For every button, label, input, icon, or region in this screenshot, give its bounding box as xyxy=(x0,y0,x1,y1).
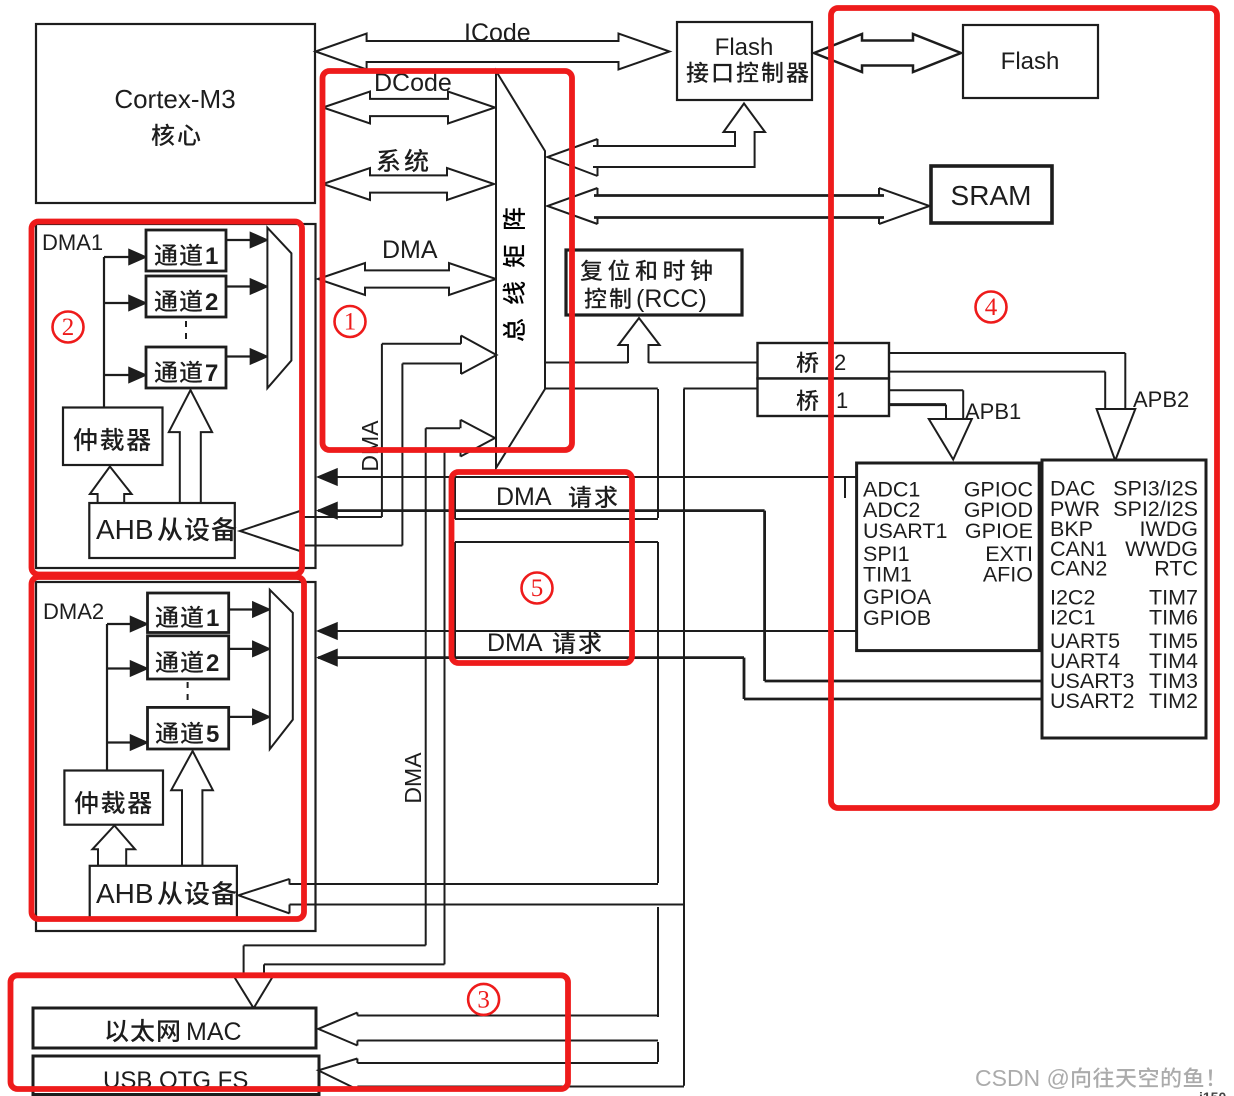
wire DMA2 trunk xyxy=(106,624,108,771)
arrowhead APB1 down xyxy=(929,419,972,460)
svg-text:I2C1: I2C1 xyxy=(1050,606,1095,630)
svg-text:AHB: AHB xyxy=(96,514,154,545)
arrow DMA2 port to matrix xyxy=(461,420,496,457)
bus arrow DMA (core) xyxy=(318,263,496,295)
wire vertical channel right (x=684) xyxy=(683,389,685,1086)
dashed link 通道2..通道5 xyxy=(187,682,189,706)
arrowhead into 通道1 xyxy=(129,250,146,265)
arrowhead into DMA2 通道1 xyxy=(131,617,148,632)
svg-text:APB1: APB1 xyxy=(965,399,1021,424)
wire band Q verticals xyxy=(425,428,427,945)
red circled 5 xyxy=(522,573,553,604)
DMA request band 1 box xyxy=(454,477,456,519)
wire 通道 outputs to mux xyxy=(226,239,252,241)
box 仲裁器 DMA2 xyxy=(64,771,163,825)
red circled 1 xyxy=(335,306,366,337)
arrow to RCC xyxy=(619,318,660,363)
svg-text:TIM1: TIM1 xyxy=(863,562,912,586)
svg-text:2: 2 xyxy=(205,289,218,316)
red circled 3 xyxy=(468,984,499,1015)
wire AHB1 band horizontals xyxy=(301,516,382,518)
box APB2 peripherals xyxy=(1042,460,1206,738)
svg-text:3: 3 xyxy=(477,986,490,1013)
wire ethernet band xyxy=(357,1015,658,1017)
label 通道7 xyxy=(155,361,202,383)
wire request W4 thick (to USART2) xyxy=(318,656,744,659)
dashed link 通道2..通道7 xyxy=(185,321,187,345)
wire USB band xyxy=(357,1062,658,1064)
red highlight box 3 xyxy=(11,975,569,1089)
arrowhead into 通道2 xyxy=(129,296,146,311)
wire bridge2 to APB2 arrow xyxy=(890,352,1125,354)
bus matrix 总线矩阵 xyxy=(496,71,545,468)
mux trapezoid DMA1 xyxy=(267,228,291,389)
wire bridge1 to APB1 arrow xyxy=(890,389,963,391)
red highlight box 2 upper (DMA1) xyxy=(32,222,303,575)
label 从设备1 xyxy=(158,517,237,541)
box DMA1 outer xyxy=(36,224,316,568)
svg-text:ICode: ICode xyxy=(464,19,531,47)
label 控制(RCC) xyxy=(585,288,631,309)
label 请求1 xyxy=(569,486,617,508)
arrow matrix to SRAM xyxy=(594,194,884,197)
label 通道2 xyxy=(155,290,202,312)
wire matrix to bridges (top) xyxy=(546,362,628,364)
box Cortex-M3 core xyxy=(36,24,315,203)
wire request W2 thick (to USART3) xyxy=(318,509,765,512)
svg-text:1: 1 xyxy=(206,605,219,632)
svg-text:TIM6: TIM6 xyxy=(1149,606,1198,630)
svg-text:DMA1: DMA1 xyxy=(42,230,103,255)
box bridge 2 桥2 xyxy=(758,343,890,379)
mux trapezoid DMA2 xyxy=(270,590,293,749)
label 通道5b xyxy=(156,722,203,744)
wire AHB2 band horizontals xyxy=(290,883,659,885)
label 桥1 xyxy=(797,390,819,411)
label 接口控制器 xyxy=(687,62,809,83)
wire step to ethernet arrow xyxy=(244,944,426,946)
svg-text:Cortex-M3: Cortex-M3 xyxy=(114,84,235,114)
label 复位和时钟 xyxy=(581,259,712,281)
wire matrix to bridges (bottom) xyxy=(545,388,658,390)
svg-text:7: 7 xyxy=(205,360,218,387)
DMA vertical label upper xyxy=(357,420,383,472)
label 仲裁器 xyxy=(74,428,151,451)
svg-text:GPIOE: GPIOE xyxy=(965,519,1033,543)
svg-text:DMA: DMA xyxy=(400,752,426,804)
svg-text:DMA2: DMA2 xyxy=(43,599,104,624)
red circled 4 xyxy=(976,292,1007,323)
svg-text:2: 2 xyxy=(62,314,75,341)
DMA vertical label lower xyxy=(400,752,426,804)
box 复位和时钟控制 RCC xyxy=(566,250,742,315)
red highlight box 5 xyxy=(452,472,633,663)
box DMA2 通道1 xyxy=(148,593,229,633)
bus arrow ICode xyxy=(316,34,670,70)
wire request W1 (to ADC1 area) xyxy=(318,476,857,478)
arrowhead into ethernet MAC xyxy=(318,1013,357,1046)
svg-text:DMA: DMA xyxy=(357,420,383,472)
wire vertical channel left (x=658) xyxy=(657,389,659,518)
box Flash xyxy=(963,25,1098,98)
arrow AHB to 通道7 DMA1 xyxy=(169,390,212,503)
svg-text:1: 1 xyxy=(205,243,218,270)
red highlight box 4 xyxy=(831,8,1217,808)
box USB OTG FS xyxy=(33,1056,319,1095)
arrowhead into DMA2 通道2 xyxy=(131,661,148,676)
arrow AHB to 仲裁器 DMA1 xyxy=(90,467,132,504)
svg-text:2: 2 xyxy=(206,650,219,677)
box bridge 1 桥1 xyxy=(758,379,890,417)
label 核心 xyxy=(152,124,201,146)
arrow Flash interface to Flash xyxy=(814,34,961,72)
box 以太网 MAC xyxy=(33,1008,316,1048)
label 桥2 xyxy=(797,352,819,373)
label 系统 xyxy=(377,149,428,172)
watermark cjk xyxy=(1072,1067,1212,1088)
arrow AHB to 仲裁器 DMA2 xyxy=(92,826,135,866)
svg-text:i150: i150 xyxy=(1199,1089,1226,1096)
svg-text:Flash: Flash xyxy=(715,34,774,61)
svg-text:Flash: Flash xyxy=(1001,48,1060,75)
red highlight box 2 lower (DMA2) xyxy=(32,577,305,919)
svg-text:DMA: DMA xyxy=(496,483,552,511)
svg-text:5: 5 xyxy=(531,575,544,602)
box DMA1 通道2 xyxy=(146,276,226,317)
arrowhead down into ethernet MAC xyxy=(234,976,273,1008)
svg-text:USART1: USART1 xyxy=(863,519,947,543)
box DMA2 通道5 xyxy=(148,707,229,749)
svg-text:2: 2 xyxy=(834,350,846,375)
svg-text:AFIO: AFIO xyxy=(983,562,1033,586)
svg-text:CSDN @: CSDN @ xyxy=(975,1065,1070,1091)
bus arrow DCode xyxy=(323,92,495,124)
arrow DMA1 port to matrix xyxy=(461,336,497,375)
svg-text:4: 4 xyxy=(985,294,998,321)
svg-text:SRAM: SRAM xyxy=(951,180,1032,211)
label 以太网 xyxy=(106,1019,179,1042)
red circled 2 xyxy=(53,312,84,343)
svg-text:USART2: USART2 xyxy=(1050,689,1134,713)
svg-text:5: 5 xyxy=(206,721,219,748)
wire DMA1 trunk xyxy=(103,257,105,408)
wire band P verticals xyxy=(381,344,383,517)
arrowhead into DMA2 通道5 xyxy=(131,735,148,750)
svg-text:APB2: APB2 xyxy=(1133,387,1189,412)
wire request W3 (to GPIOB) xyxy=(318,630,857,632)
wire DMA2 通道 outputs to mux xyxy=(229,608,254,610)
svg-text:(RCC): (RCC) xyxy=(636,285,707,313)
arrowhead into USB OTG FS xyxy=(318,1059,357,1090)
svg-text:CAN2: CAN2 xyxy=(1050,557,1107,581)
box DMA1 通道7 xyxy=(146,347,226,388)
svg-text:DMA: DMA xyxy=(382,236,438,264)
red highlight box 1 xyxy=(323,71,573,450)
svg-text:GPIOB: GPIOB xyxy=(863,606,931,630)
wire band matrix-FlashIF with up arrow xyxy=(548,139,598,176)
box DMA2 通道2 xyxy=(148,636,229,679)
arrowhead into AHB从设备 DMA1 xyxy=(240,511,301,552)
box AHB从设备 DMA1 xyxy=(89,503,235,558)
box DMA2 outer xyxy=(36,582,316,931)
box APB1 peripherals xyxy=(857,463,1040,651)
box 仲裁器 DMA1 xyxy=(63,408,163,466)
bus arrow 系统 xyxy=(323,168,494,200)
svg-text:RTC: RTC xyxy=(1154,557,1198,581)
label 从设备2 xyxy=(158,881,237,905)
arrow AHB to 通道5 DMA2 xyxy=(171,751,213,866)
label 通道1 xyxy=(155,244,202,266)
box AHB从设备 DMA2 xyxy=(90,866,237,920)
svg-text:DMA: DMA xyxy=(487,629,543,657)
DMA request band 2 box xyxy=(455,541,658,543)
svg-text:1: 1 xyxy=(836,388,848,413)
label 通道2b xyxy=(156,651,203,673)
arrowhead APB2 down xyxy=(1097,409,1136,461)
box SRAM xyxy=(931,166,1052,223)
label 仲裁器2 xyxy=(75,791,152,814)
box DMA1 通道1 xyxy=(146,230,226,271)
svg-text:TIM2: TIM2 xyxy=(1149,689,1198,713)
box Flash interface controller xyxy=(677,22,812,100)
label 通道1b xyxy=(156,606,203,628)
svg-text:MAC: MAC xyxy=(186,1018,242,1046)
arrowhead into AHB从设备 DMA2 xyxy=(239,879,290,914)
svg-text:AHB: AHB xyxy=(96,878,154,909)
svg-text:1: 1 xyxy=(344,309,357,336)
label 请求2 xyxy=(553,632,601,654)
arrowhead into 通道7 xyxy=(129,368,146,383)
